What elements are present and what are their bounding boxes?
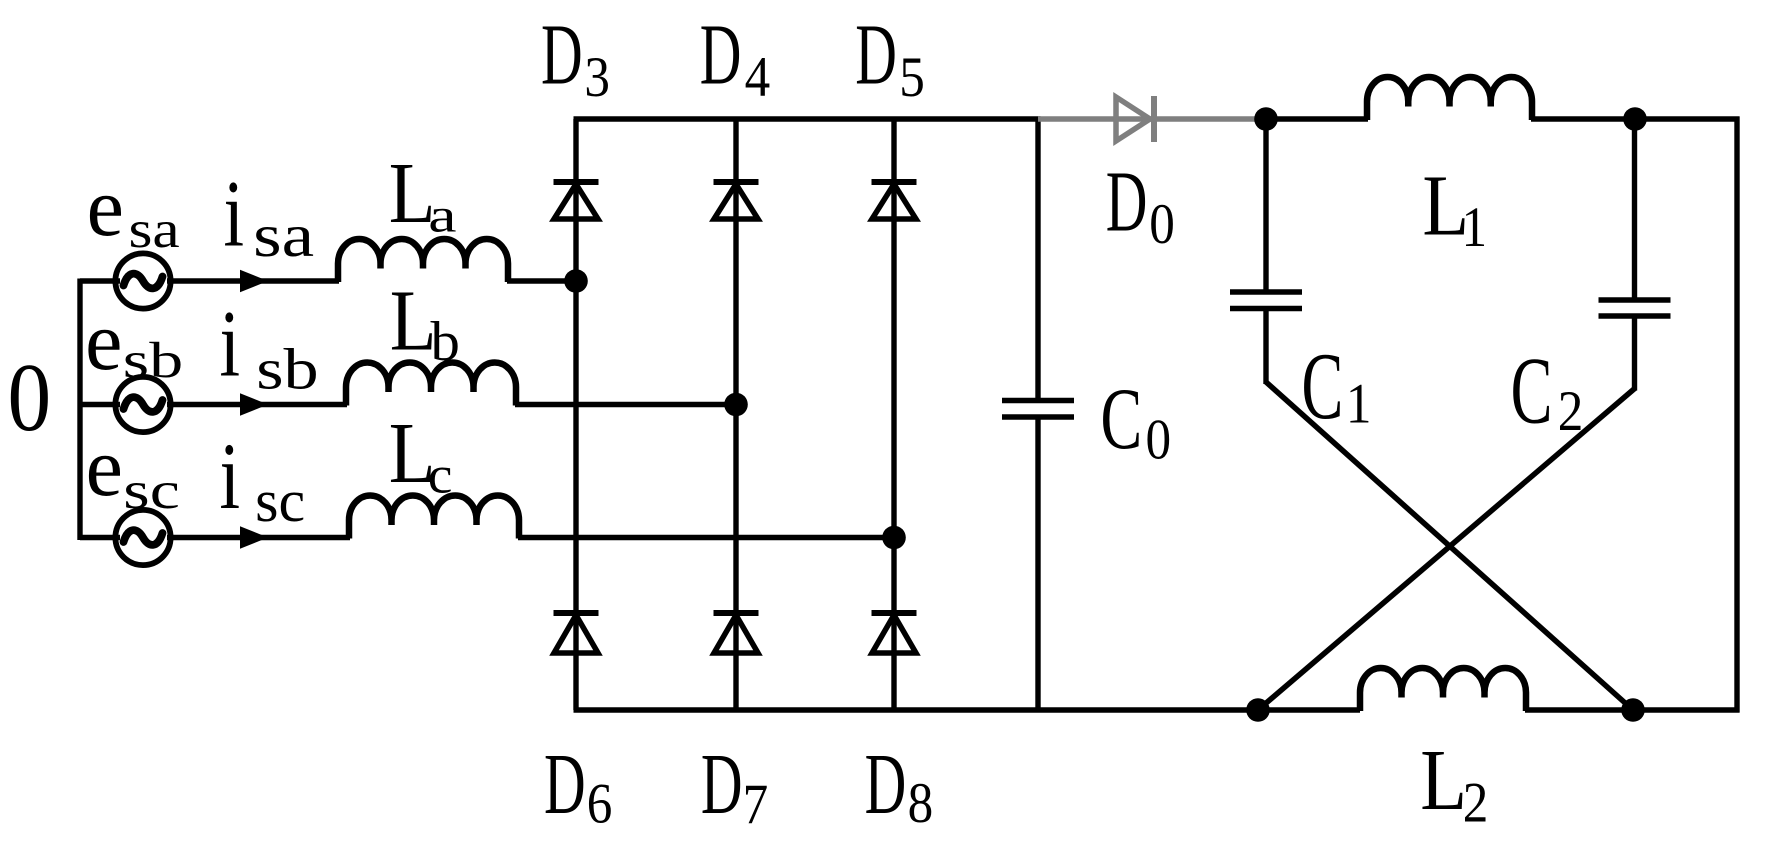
label D6 — [544, 735, 612, 835]
svg-text:2: 2 — [1463, 771, 1489, 834]
wire: inductor La to bridge leg — [507, 278, 576, 283]
node 0 left vertical bus — [77, 279, 82, 541]
label L1 — [1422, 157, 1487, 259]
svg-text:i: i — [224, 162, 245, 267]
svg-text:5: 5 — [899, 45, 925, 108]
gray wire through D0 — [1038, 116, 1257, 122]
svg-text:0: 0 — [8, 344, 52, 451]
svg-text:sa: sa — [253, 202, 314, 270]
label L_c — [389, 404, 453, 504]
svg-text:D: D — [700, 6, 742, 103]
label C0 — [1101, 369, 1172, 471]
svg-text:sa: sa — [129, 201, 180, 259]
node phase b / D4 leg — [724, 393, 748, 417]
label e_sa — [87, 161, 180, 259]
svg-text:sb: sb — [256, 337, 318, 401]
svg-text:e: e — [85, 295, 122, 388]
label D5 — [855, 6, 925, 109]
label D0 — [1106, 153, 1175, 256]
svg-text:c: c — [428, 446, 453, 505]
AC source e_sc — [115, 510, 170, 565]
capacitor C2 top leg — [1632, 119, 1637, 300]
wire: node 0 bus to source e_sc — [80, 535, 120, 540]
svg-text:L: L — [1420, 731, 1467, 828]
diode D8 — [872, 610, 917, 616]
wire: C2 diagonal to bottom-left node — [1258, 389, 1635, 710]
label D8 — [865, 735, 934, 834]
label L_a — [389, 144, 457, 242]
bottom DC bus wire — [574, 707, 1361, 712]
svg-text:D: D — [541, 6, 583, 103]
wire: inductor Lb to bridge leg — [515, 402, 736, 407]
svg-text:e: e — [86, 421, 123, 514]
inductor L1 — [1367, 77, 1532, 120]
svg-text:3: 3 — [584, 45, 610, 108]
wire: node 0 bus to source e_sa — [80, 278, 120, 283]
arrow i_sa — [240, 270, 268, 293]
diode D7 — [714, 610, 759, 616]
inductor L2 — [1360, 668, 1526, 711]
inductor La — [338, 239, 508, 282]
label L_b — [390, 272, 460, 373]
wire: C1 diagonal to bottom-right node — [1266, 382, 1633, 710]
svg-text:6: 6 — [587, 772, 613, 835]
label D4 — [700, 6, 770, 109]
bridge leg D3/D6 — [573, 119, 578, 710]
svg-text:D: D — [544, 735, 586, 832]
node phase c / D5 leg — [882, 526, 906, 550]
capacitor C2 — [1599, 297, 1671, 303]
capacitor C0 — [1002, 398, 1074, 404]
label i_sa — [224, 162, 315, 270]
wire: inductor Lc to bridge leg — [518, 535, 894, 540]
inductor Lc — [349, 496, 519, 539]
right vertical wire — [1734, 117, 1739, 713]
label e_sb — [85, 295, 183, 388]
capacitor C2 bottom leg — [1632, 316, 1637, 391]
node C2 top node — [1623, 107, 1647, 131]
svg-text:7: 7 — [743, 772, 769, 835]
svg-text:e: e — [87, 161, 124, 254]
capacitor C1 top leg — [1263, 119, 1268, 292]
bottom bus wire right of L2 — [1525, 707, 1740, 712]
diode D6 — [554, 610, 599, 616]
wire: source to inductor Lc with current arrow i_sc — [167, 535, 350, 540]
diode D3 — [554, 179, 599, 185]
wire: source to inductor Lb with current arrow i_sb — [167, 402, 347, 407]
svg-text:2: 2 — [1558, 379, 1584, 442]
wire: node to L1 — [1266, 116, 1368, 121]
label node 0 — [8, 344, 52, 451]
label D7 — [701, 735, 768, 835]
top DC bus wire — [574, 116, 1041, 121]
svg-text:L: L — [390, 272, 437, 369]
wire: node 0 bus to source e_sb — [80, 402, 120, 407]
svg-text:1: 1 — [1462, 195, 1488, 258]
label C1 — [1302, 334, 1372, 439]
svg-text:sc: sc — [255, 468, 305, 534]
svg-text:8: 8 — [908, 771, 934, 834]
AC source e_sb — [115, 377, 170, 432]
wire: L1 to top-right corner — [1531, 116, 1740, 121]
label L2 — [1420, 731, 1488, 834]
svg-text:0: 0 — [1149, 192, 1175, 255]
svg-text:C: C — [1302, 334, 1344, 439]
bridge leg D4/D7 — [733, 119, 738, 710]
node bottom-left node — [1246, 698, 1270, 722]
svg-text:sb: sb — [123, 332, 183, 388]
arrow i_sc — [240, 526, 268, 549]
node phase a / D3 leg — [564, 269, 588, 293]
AC source e_sa — [115, 253, 170, 308]
capacitor C1 — [1230, 289, 1302, 295]
diode D5 — [872, 179, 917, 185]
svg-text:D: D — [701, 735, 743, 832]
svg-text:sc: sc — [123, 462, 180, 520]
svg-text:1: 1 — [1346, 372, 1372, 435]
svg-text:C: C — [1511, 339, 1553, 444]
capacitor C0 leg bottom — [1035, 417, 1040, 710]
inductor Lb — [346, 363, 516, 406]
svg-text:b: b — [431, 311, 460, 372]
label C2 — [1511, 339, 1584, 444]
node bottom-right node — [1621, 698, 1645, 722]
svg-text:C: C — [1101, 369, 1143, 467]
label i_sc — [220, 424, 306, 534]
label D3 — [541, 6, 610, 109]
node output + node — [1254, 107, 1278, 131]
capacitor C0 leg top — [1035, 119, 1040, 401]
svg-text:0: 0 — [1146, 408, 1172, 471]
svg-text:4: 4 — [745, 45, 771, 108]
svg-text:D: D — [1106, 153, 1148, 250]
diode D0 (gray) — [1116, 97, 1150, 141]
bridge leg D5/D8 — [891, 119, 896, 710]
label e_sc — [86, 421, 180, 520]
capacitor C1 bottom leg — [1263, 309, 1268, 385]
wire: source to inductor La with current arrow i_sa — [167, 278, 339, 283]
svg-text:D: D — [855, 6, 897, 103]
svg-text:i: i — [220, 292, 241, 397]
diode D4 — [714, 179, 759, 185]
label i_sb — [220, 292, 319, 401]
arrow i_sb — [240, 393, 268, 416]
svg-text:i: i — [220, 424, 241, 529]
svg-text:a: a — [428, 188, 456, 242]
svg-text:D: D — [865, 735, 907, 832]
